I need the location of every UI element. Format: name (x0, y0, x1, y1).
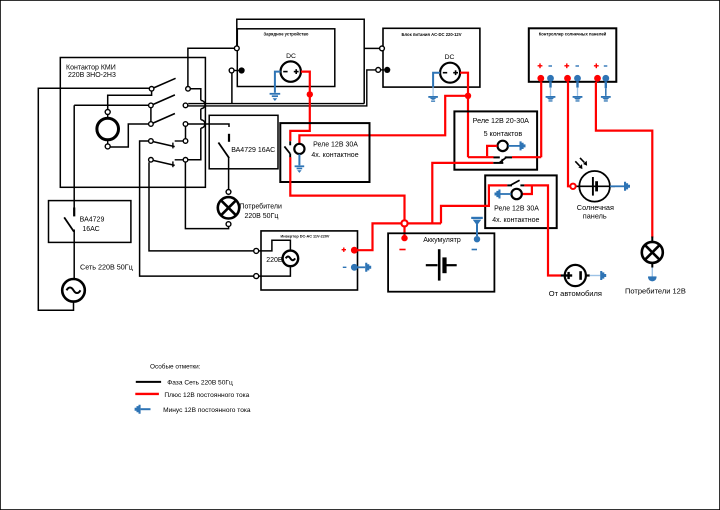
breaker VA4729-1 switch blade (64, 208, 74, 232)
wire: row2 left to row3 left link (150, 108, 152, 122)
svg-text:Реле 12В 20-30А: Реле 12В 20-30А (473, 116, 530, 125)
battery box (Аккумулятор) (388, 233, 494, 291)
wire: relay 20-30A red from controller drop1 (512, 156, 541, 158)
battery cell symbol (426, 249, 457, 280)
contactor NO contact row2 (149, 95, 188, 108)
relay 20-30A coil (498, 141, 508, 151)
wire: inverter lower terminal under AC symbol (259, 266, 291, 276)
solar panel (Солнечная панель) (576, 171, 615, 221)
inverter box (Инвертор DC-AC 11V-220V) (261, 231, 358, 290)
svg-text:Минус 12В постоянного тока: Минус 12В постоянного тока (163, 407, 251, 414)
contactor NO contact row3 (149, 114, 188, 127)
mains AC source (Сеть 220В 50Гц) (62, 262, 133, 301)
ground: charger minus (270, 94, 281, 101)
svg-text:Реле 12В 30А: Реле 12В 30А (313, 141, 358, 148)
wire: relay2 coil minus blue arrow left (495, 190, 512, 199)
220V consumers lamp (Потребители 220В 50Гц) (218, 190, 282, 227)
svg-text:Контактор КМИ: Контактор КМИ (66, 64, 116, 71)
svg-text:220В 3НО-2Н3: 220В 3НО-2Н3 (68, 72, 116, 79)
wire: controller drop3 red to 12V lamp (596, 82, 652, 238)
relay1 switch (284, 141, 290, 157)
wire: row1 left to coil top (108, 91, 152, 109)
wire: relay 20-30A coil plus (red) (487, 146, 497, 156)
legend phase line (136, 380, 233, 387)
relay1 coil (294, 144, 304, 154)
svg-text:Инвертор DC-AC 11V-220V: Инвертор DC-AC 11V-220V (281, 235, 330, 239)
PSU DC source U2 (440, 54, 460, 83)
charger terminal upper (234, 46, 239, 51)
wire: junction ring down to battery plus (403, 227, 405, 236)
battery minus terminal blue dot (472, 236, 481, 250)
breaker VA4729-2 switch blade (218, 134, 229, 158)
svg-text:4х. контактное: 4х. контактное (492, 217, 539, 224)
legend minus arrow (135, 405, 251, 414)
contactor NC contact row5 (149, 158, 188, 168)
relay1 box (Реле 12В 30А 4х. контактное) (280, 123, 369, 182)
wire: controller drop2 red to solar panel (568, 82, 570, 187)
svg-text:ВА4729 16АС: ВА4729 16АС (231, 147, 275, 154)
node: red junction ring above battery (401, 220, 407, 226)
inverter AC source (283, 251, 299, 267)
wire: relay2 coil plus branch (522, 185, 532, 194)
inverter plus terminal red dot (342, 247, 358, 254)
wire: coil bottom to row3 left (110, 124, 148, 147)
svg-text:Зарядное устройство: Зарядное устройство (264, 31, 309, 36)
junction: red dot under PSU (465, 93, 471, 99)
wire: controller drop1 red to relay 20-30A (540, 82, 542, 157)
wire: inverter upper terminal to AC symbol (259, 240, 291, 251)
svg-text:220В 50Гц: 220В 50Гц (245, 213, 279, 220)
wire: PSU minus (blue) with down arrow (428, 73, 440, 102)
svg-text:Потребители 12В: Потребители 12В (625, 287, 686, 296)
PSU terminal lower (376, 67, 391, 73)
controller minus stub 1 (blue down arrow) (546, 82, 556, 102)
wire: relay1 coil minus (blue) to ground (298, 154, 300, 165)
wire: PSU plus (red) down to relay 20-30A (460, 73, 468, 158)
wire: relay2 red out to car socket (524, 185, 561, 275)
node: solar panel red terminal ring (570, 184, 575, 189)
wire: relay 20-30A coil minus blue arrow right (508, 141, 525, 150)
controller polarity marks (538, 63, 608, 68)
wire: row3 right to row4 right link (185, 126, 187, 138)
wire: row3 right to breaker VA4729-2 (188, 124, 229, 127)
controller minus stub 3 (blue bar + down arrow) (601, 82, 611, 102)
svg-text:панель: панель (583, 212, 607, 221)
svg-text:Потребители: Потребители (240, 202, 282, 210)
svg-text:DC: DC (286, 53, 296, 60)
contactor KMI box (60, 58, 205, 188)
wire: relay1 red continues down to battery junction (290, 157, 404, 220)
wire: charger minus (blue) (275, 72, 281, 93)
PSU terminal upper (380, 46, 385, 51)
wire: junction ring right to riser (408, 222, 441, 224)
wire: charger plus (red) to relay1 switch (290, 72, 310, 141)
wire: row4 left to inverter lower terminal (140, 141, 254, 276)
wire: mains phase from AC source to contactor row1 left (38, 88, 149, 310)
svg-text:220В: 220В (266, 257, 283, 264)
svg-text:Контроллер солнечных панелей: Контроллер солнечных панелей (539, 31, 607, 36)
charger box (Зарядное устройство) (237, 29, 334, 87)
relay 20-30A box (Реле 12В 20-30А 5 контактов) (454, 111, 537, 169)
svg-text:Блок питания AC-DC 220-12V: Блок питания AC-DC 220-12V (401, 32, 461, 37)
battery plus terminal red dot (399, 235, 407, 250)
relay2 switch (507, 180, 524, 185)
inverter minus terminal blue dot with arrow (343, 263, 371, 272)
wire: right bus row1 to row5 with hops (188, 89, 201, 160)
wire hop over row2 pair (201, 100, 205, 108)
wire: relay 20-30A main red rail (468, 156, 494, 158)
breaker VA4729-2 box (209, 115, 278, 169)
svg-text:Реле 12В 30А: Реле 12В 30А (494, 206, 539, 213)
PSU box (Блок питания AC-DC 220-12V) (383, 28, 480, 87)
wire: red branch PSU dot to relay1 coil (299, 96, 468, 144)
ground: relay1 coil (295, 166, 305, 173)
inverter terminals (254, 248, 259, 253)
relay2 box (Реле 12В 30А 4х. контактное) (485, 175, 557, 228)
wire: relay2 red feed from battery junction riser (441, 185, 507, 223)
svg-text:Фаза Сеть 220В 50Гц: Фаза Сеть 220В 50Гц (167, 380, 233, 387)
wire: branch to PSU upper terminal (364, 47, 379, 49)
wire: row2 upper line to PSU upper terminal (188, 103, 364, 105)
solar controller box (Контроллер солнечных панелей) (529, 28, 617, 82)
svg-text:4х. контактное: 4х. контактное (311, 152, 358, 159)
wire: 220V lamp return to row5 right (185, 162, 228, 229)
controller minus stub 2 (blue down arrow) (573, 82, 583, 102)
svg-text:От автомобиля: От автомобиля (549, 289, 602, 298)
wire: breaker VA4729-2 to 220V lamp (228, 158, 230, 190)
junction: red dot under charger (307, 91, 313, 97)
svg-text:Аккумулятр: Аккумулятр (423, 237, 461, 244)
svg-text:Сеть 220В 50Гц: Сеть 220В 50Гц (80, 262, 133, 271)
wire hop over row3 line (201, 120, 205, 128)
wire: top link charger corner to PSU drop (237, 19, 364, 103)
wire: battery minus blue up arrow with bar (471, 218, 483, 236)
wire: charger lower terminal drop to row2 upper line (231, 73, 233, 104)
contactor coil (97, 110, 119, 149)
contactor NC contact row4 (149, 139, 188, 149)
12V consumers lamp (Потребители 12В) (625, 242, 686, 296)
svg-text:Особые отметки:: Особые отметки: (150, 362, 201, 370)
wire: solar panel minus blue arrow right (610, 182, 630, 191)
svg-text:Плюс 12В постоянного тока: Плюс 12В постоянного тока (164, 392, 249, 399)
charger DC source U1 (281, 53, 301, 82)
wire: inverter plus to battery junction (354, 223, 402, 250)
wire: row1 right up to charger upper terminal (188, 48, 235, 86)
wire: breaker VA4729-1 feed down left column (73, 105, 75, 213)
wire: row2 lower line to PSU lower terminal (188, 70, 376, 106)
car socket (От автомобиля) (549, 265, 602, 298)
wire: row5 left to inverter upper terminal (149, 162, 254, 251)
svg-text:ВА4729: ВА4729 (80, 216, 105, 223)
relay2 coil (511, 189, 521, 199)
contactor NO contact row1 (149, 78, 190, 91)
charger terminal lower (229, 67, 244, 73)
wire: relay 20-30A lower red from battery junction riser (432, 163, 493, 224)
breaker VA4729-1 box (49, 201, 131, 243)
controller terminal dots (537, 75, 609, 82)
svg-text:5 контактов: 5 контактов (484, 129, 523, 138)
svg-text:16АС: 16АС (82, 226, 99, 233)
wire: row2 feed horizontal (74, 104, 148, 106)
wire: 12V lamp minus blue down arrow (648, 263, 656, 282)
wire: breaker VA4729-1 to AC source (73, 230, 75, 280)
relay 20-30A changeover switch (493, 157, 512, 163)
solar panel light arrows (575, 158, 587, 169)
legend plus line (135, 392, 249, 399)
svg-text:DC: DC (445, 54, 455, 61)
wire: car socket minus blue arrow right (590, 271, 607, 280)
